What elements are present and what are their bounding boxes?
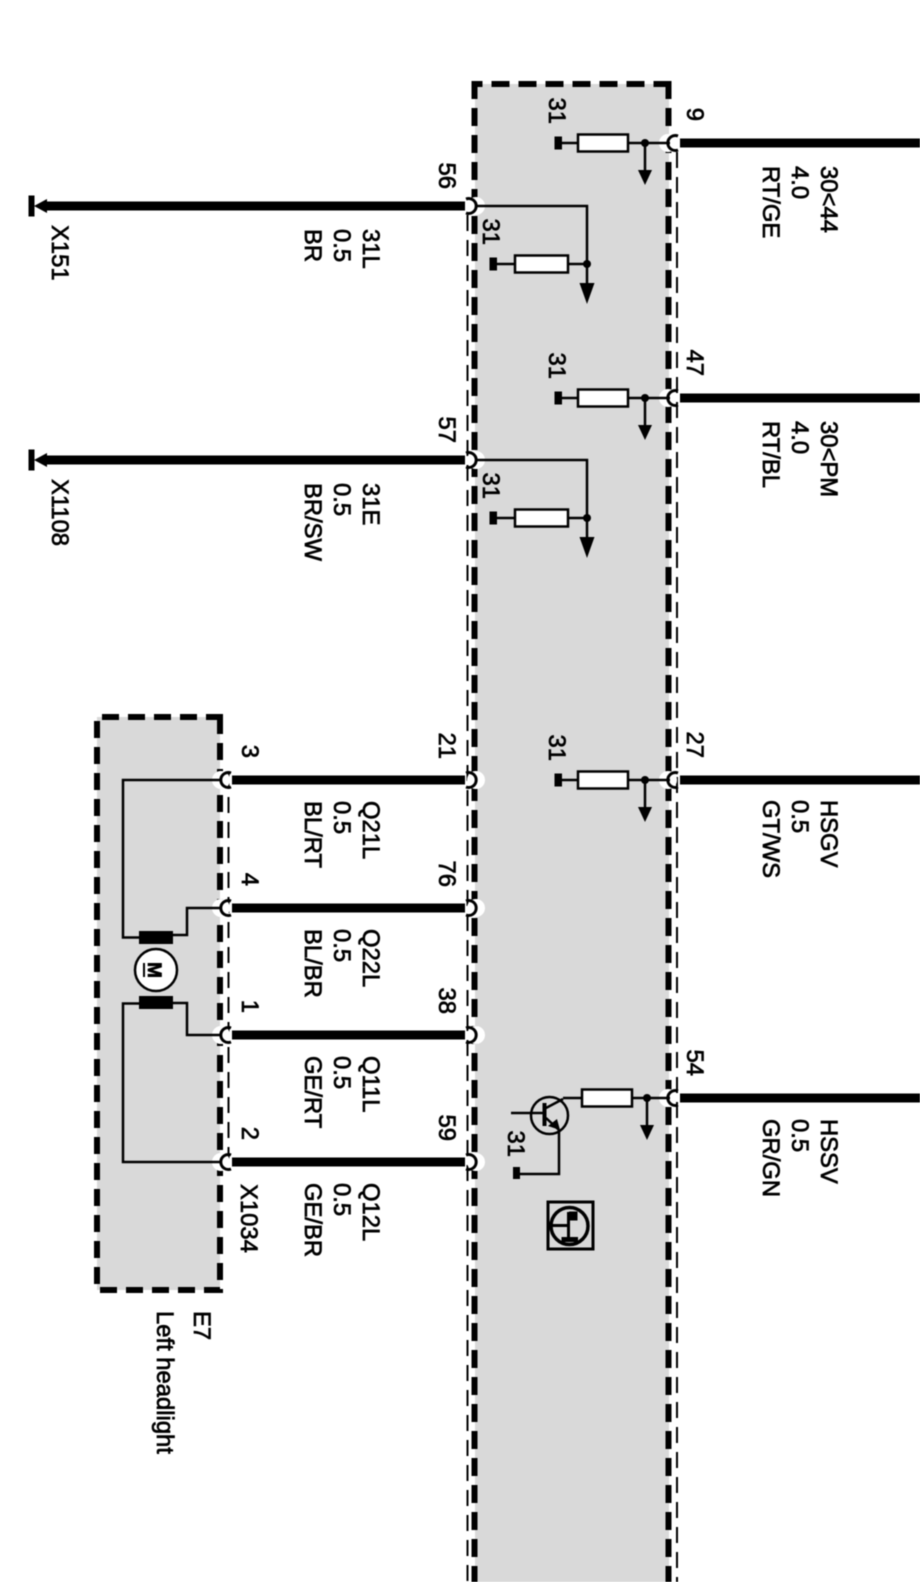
terminal label 31 (row 56) [477,219,504,245]
continuation arrow at X1108 [29,450,48,471]
emitter wire to terminal 31 [520,1130,559,1174]
pin number 59 [433,1115,460,1141]
svg-text:76: 76 [433,861,460,887]
wire pin 59 to E7 pin 2 [232,1158,465,1167]
svg-text:38: 38 [433,988,460,1014]
collector lead (row 54) [563,1097,582,1100]
pin number 47 [681,350,708,376]
svg-text:30<44: 30<44 [815,166,842,233]
svg-text:0.5: 0.5 [328,929,355,962]
pin number 3 [236,745,263,758]
lead from pin 54 [632,1097,670,1100]
connector socket pin 47 [659,389,678,407]
pin number 2 [236,1127,263,1140]
connector label X151 [46,225,73,281]
label E7 [188,1311,215,1340]
svg-text:HSSV: HSSV [815,1119,842,1184]
svg-text:4.0: 4.0 [786,421,813,454]
terminal label 31 (row 57) [477,473,504,499]
wire label Q22L 0.5 BL/BR [299,929,384,998]
pin number 1 [236,1000,263,1013]
wire label 31L 0.5 BR [299,229,384,269]
junction node (row 56) [583,260,591,268]
svg-text:Q21L: Q21L [357,801,384,859]
motor brush bar (right) [139,996,173,1009]
wire label Q11L 0.5 GE/RT [299,1056,384,1128]
lead from pin 27 [628,779,670,782]
svg-text:2: 2 [236,1127,263,1140]
connector socket E7 pin 1 [212,1026,231,1044]
svg-text:56: 56 [433,163,460,189]
lead to terminal 31 (row 27) [561,779,578,782]
wire label Q21L 0.5 BL/RT [299,801,384,868]
connector label X1108 [46,479,73,546]
connector socket pin 54 [659,1089,678,1107]
svg-text:31E: 31E [357,483,384,525]
svg-text:M: M [143,962,164,978]
svg-text:GE/BR: GE/BR [299,1183,326,1257]
svg-text:4.0: 4.0 [786,166,813,199]
wire label HSSV 0.5 GR/GN [757,1119,842,1197]
svg-text:31L: 31L [357,229,384,269]
ground arrow (row 54) [640,1098,654,1140]
svg-text:30<PM: 30<PM [815,421,842,497]
lead from pin 47 [628,397,670,400]
svg-text:HSGV: HSGV [815,800,842,868]
connector socket pin 59 [466,1153,485,1171]
svg-text:31: 31 [543,98,570,124]
svg-text:0.5: 0.5 [786,800,813,833]
wire label 31E 0.5 BR/SW [299,483,384,562]
svg-text:0.5: 0.5 [328,229,355,262]
connector socket E7 pin 3 [212,771,231,789]
connector socket E7 pin 2 [212,1153,231,1171]
terminal tick 31 (emitter) [513,1167,520,1179]
control unit box N (gray dashed band) [472,81,672,1582]
terminal tick 31 (row 56) [490,258,498,271]
pin number 38 [433,988,460,1014]
junction node (row 27) [641,776,649,784]
terminal tick 31 (row 57) [490,512,498,525]
ground arrow (row 47) [638,398,652,440]
svg-text:3: 3 [236,745,263,758]
wire pin 56 to X151 [46,202,465,211]
lead to resistor (row 56) [568,263,587,266]
gauge symbol (headlamp leveling icon) [548,1202,593,1249]
connector socket pin 21 [466,771,485,789]
ground arrow (row 56) [580,264,595,304]
connector strip line, control unit top edge [676,152,678,1582]
terminal label 31 (row 9) [543,98,570,124]
svg-text:Q11L: Q11L [357,1056,384,1112]
svg-text:0.5: 0.5 [328,1056,355,1089]
wire pin 21 to E7 pin 3 [232,776,465,785]
pin number 56 [433,163,460,189]
svg-text:BL/BR: BL/BR [299,929,326,998]
terminal label 31 (row 27) [543,735,570,761]
svg-text:Q12L: Q12L [357,1183,384,1241]
wire pin 57 to X1108 [46,456,465,465]
pin number 9 [681,108,708,121]
ground arrow (row 57) [580,518,595,558]
ground arrow (row 27) [638,780,652,822]
resistor (row 47) [578,390,628,407]
svg-text:59: 59 [433,1115,460,1141]
terminal label 31 (emitter) [502,1131,529,1157]
motor brush bar (left) [139,931,173,944]
svg-text:X1034: X1034 [235,1184,262,1253]
E7 internal wire pin 3 to motor brush [123,780,220,938]
svg-text:57: 57 [433,417,460,443]
svg-text:Q22L: Q22L [357,929,384,987]
wire pin 38 to E7 pin 1 [232,1031,465,1040]
svg-text:47: 47 [681,350,708,376]
component box E7 (left headlight, gray dashed) [97,717,220,1290]
connector strip line X1034 on E7 top edge [228,772,230,1170]
pin number 4 [236,873,263,886]
connector label X1034 [235,1184,262,1253]
svg-text:0.5: 0.5 [328,801,355,834]
resistor (row 27) [578,772,628,789]
pin number 57 [433,417,460,443]
connector socket E7 pin 4 [212,899,231,917]
motor M (headlamp leveling motor) [135,949,177,991]
junction node (row 9) [641,139,649,147]
resistor (row 9) [578,135,628,152]
ground arrow (row 9) [638,143,652,185]
svg-text:31: 31 [477,473,504,499]
svg-text:BR/SW: BR/SW [299,483,326,562]
svg-text:BL/RT: BL/RT [299,801,326,868]
wire label 30&lt;44 4.0 RT/GE [757,166,842,238]
lead to terminal 31 (row 56) [496,263,515,266]
wire pin 27 [680,776,920,785]
pin number 21 [433,733,460,759]
transistor Q1 (output stage pin 54) [511,1097,568,1134]
terminal tick 31 (row 9) [555,137,563,150]
connector socket pin 56 [466,197,485,215]
svg-text:4: 4 [236,873,263,886]
E7 internal wire pin 2 to motor brush [123,1004,220,1163]
svg-text:E7: E7 [188,1311,215,1340]
lead from pin 9 [628,142,670,145]
svg-text:31: 31 [543,735,570,761]
resistor (row 54) [582,1090,632,1107]
resistor (row 57) [515,510,568,527]
svg-text:RT/GE: RT/GE [757,166,784,238]
svg-text:9: 9 [681,108,708,121]
connector socket pin 9 [659,134,678,152]
svg-text:1: 1 [236,1000,263,1013]
pin number 27 [681,732,708,758]
svg-text:RT/BL: RT/BL [757,421,784,488]
E7 internal wire pin 4 to motor brush [173,908,220,935]
label Left headlight [151,1311,178,1454]
svg-text:GE/RT: GE/RT [299,1056,326,1128]
lead to terminal 31 (row 47) [561,397,578,400]
svg-text:0.5: 0.5 [328,1183,355,1216]
svg-text:0.5: 0.5 [328,483,355,516]
lead to terminal 31 (row 9) [561,142,578,145]
svg-text:X1108: X1108 [46,479,73,546]
terminal tick 31 (row 27) [555,774,563,787]
svg-text:GR/GN: GR/GN [757,1119,784,1197]
lead from pin 56 into control unit [477,206,587,264]
pin number 76 [433,861,460,887]
wire label 30&lt;PM 4.0 RT/BL [757,421,842,497]
svg-text:21: 21 [433,733,460,759]
svg-text:31: 31 [543,353,570,379]
connector socket pin 57 [466,451,485,469]
wire label Q12L 0.5 GE/BR [299,1183,384,1257]
svg-text:31: 31 [477,219,504,245]
junction node (row 57) [583,514,591,522]
svg-text:BR: BR [299,229,326,262]
connector socket pin 27 [659,771,678,789]
terminal label 31 (row 47) [543,353,570,379]
svg-text:GT/WS: GT/WS [757,800,784,878]
wire pin 54 [680,1094,920,1103]
wire pin 9 [680,139,920,148]
junction node (row 54) [643,1094,651,1102]
wire label HSGV 0.5 GT/WS [757,800,842,878]
E7 internal wire pin 1 to motor brush [173,1003,220,1035]
connector strip line, control unit bottom edge [467,215,469,1582]
svg-text:0.5: 0.5 [786,1119,813,1152]
svg-text:54: 54 [681,1050,708,1076]
pin number 54 [681,1050,708,1076]
lead to resistor (row 57) [568,517,587,520]
lead from pin 57 into control unit [477,460,587,518]
connector socket pin 76 [466,899,485,917]
svg-text:31: 31 [502,1131,529,1157]
resistor (row 56) [515,256,568,273]
svg-text:X151: X151 [46,225,73,281]
svg-text:Left headlight: Left headlight [151,1311,178,1454]
connector socket pin 38 [466,1026,485,1044]
wire pin 76 to E7 pin 4 [232,904,465,913]
terminal tick 31 (row 47) [555,392,563,405]
junction node (row 47) [641,394,649,402]
wire pin 47 [680,394,920,403]
lead to terminal 31 (row 57) [496,517,515,520]
continuation arrow at X151 [29,196,48,217]
svg-text:27: 27 [681,732,708,758]
